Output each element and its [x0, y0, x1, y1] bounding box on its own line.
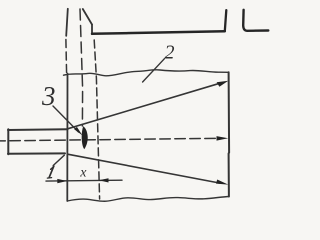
- nozzle axis extension dashed line (dimension extension): [94, 40, 99, 199]
- nozzle right vertical edge: [91, 25, 93, 35]
- lower spray ray: [68, 154, 220, 183]
- arrowhead of leader 3: [74, 127, 82, 136]
- region 2 bottom wavy boundary: [67, 197, 229, 202]
- leader line of label 2: [143, 59, 165, 82]
- dimension x left arrowhead: [57, 179, 67, 183]
- electrode bar top edge: [8, 128, 68, 131]
- region 2 left vertical edge: [66, 74, 68, 202]
- upper spray ray: [68, 83, 220, 129]
- nozzle right slanted edge: [83, 9, 92, 25]
- svg-text:3: 3: [41, 81, 56, 111]
- axis centerline dashed (bar centerline and middle ray): [0, 138, 217, 141]
- electrode bar left end edge: [7, 129, 9, 154]
- region 2 top wavy boundary: [64, 70, 229, 76]
- plate upturned lip: [225, 10, 227, 31]
- leader line of label 3: [53, 106, 79, 132]
- region 2 right vertical edge: [228, 72, 231, 196]
- dimension x line: [46, 179, 122, 182]
- electrode bar bottom edge: [8, 152, 65, 154]
- plate top surface line: [92, 31, 225, 34]
- nozzle inner dashed line: [80, 9, 83, 126]
- arrowhead of upper spray ray: [217, 81, 229, 87]
- right plate piece: [243, 10, 268, 31]
- label 1: [47, 166, 54, 178]
- dimension x right arrowhead: [99, 178, 109, 182]
- arrowhead of middle dashed ray: [217, 136, 229, 141]
- svg-text:x: x: [79, 165, 87, 180]
- svg-text:2: 2: [165, 42, 175, 64]
- leader line of label 1: [53, 155, 64, 165]
- molten drop (item 3 blob): [82, 126, 88, 149]
- arrowhead of lower spray ray: [216, 180, 228, 185]
- nozzle left edge hidden continuation (dashed): [65, 40, 68, 75]
- nozzle left outer edge (solid): [66, 9, 68, 36]
